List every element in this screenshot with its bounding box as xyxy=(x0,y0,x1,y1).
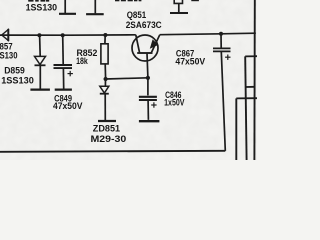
node junction dot D859 tap xyxy=(37,33,41,37)
wire ZD851 top lead xyxy=(104,79,106,86)
resistor R852 body xyxy=(101,44,108,64)
wire C846 top lead xyxy=(147,78,149,96)
polarity plus C846 xyxy=(151,102,156,107)
capacitor C849 plate bottom xyxy=(54,67,73,69)
svg-text:47x50V: 47x50V xyxy=(175,56,205,67)
capacitor C867 plate bottom xyxy=(213,50,231,52)
svg-text:1SS130: 1SS130 xyxy=(26,2,57,13)
node junction dot base node right xyxy=(146,76,150,80)
wire R852 bottom lead xyxy=(104,64,106,79)
transistor Q851 circle xyxy=(132,35,158,61)
wire bus stub H0 xyxy=(245,55,257,57)
node junction dot R852 tap xyxy=(103,33,107,37)
ground bar D859 xyxy=(30,88,50,90)
svg-text:S130: S130 xyxy=(0,50,18,61)
transistor Q851 base bar xyxy=(137,52,152,54)
capacitor C846 plate bottom xyxy=(139,99,157,101)
capacitor C849 plate top xyxy=(54,64,73,66)
node junction dot base node left xyxy=(104,77,108,81)
node junction dot C849 tap xyxy=(61,33,65,37)
zener ZD851 triangle xyxy=(100,86,109,93)
wire R852 top lead xyxy=(104,35,106,44)
wire Q851 base lead xyxy=(146,53,149,78)
wire ZD851 bottom lead xyxy=(104,95,106,121)
svg-text:47x50V: 47x50V xyxy=(53,101,83,112)
wire C846 bottom lead xyxy=(147,101,149,120)
diode D859 triangle xyxy=(35,56,46,64)
ground symbol top 2 xyxy=(86,0,104,14)
vertical bus right V1 xyxy=(253,0,255,160)
svg-text:M29-30: M29-30 xyxy=(91,134,127,145)
wire Q851 collector diagonal xyxy=(136,35,140,53)
diode D857 cathode bar xyxy=(7,29,9,41)
wire C849 bottom lead xyxy=(62,69,64,89)
wire C867 bottom lead xyxy=(221,52,225,151)
vertical bus V2 xyxy=(245,56,246,160)
wire base node horizontal xyxy=(106,78,148,79)
svg-text:1x50V: 1x50V xyxy=(164,98,185,109)
cut-off text above 1SS130 xyxy=(28,0,49,2)
wire bus stub H1 xyxy=(246,86,255,88)
wire Q851 emitter diagonal xyxy=(152,35,160,53)
ground bar C849 xyxy=(55,88,72,90)
capacitor C867 plate top xyxy=(213,47,231,49)
wire C849 top lead xyxy=(62,35,65,64)
diode D859 cathode bar xyxy=(35,64,46,66)
wire bus corner H2 xyxy=(236,97,257,99)
wire C867 top lead xyxy=(220,34,222,48)
node junction dot C867 tap xyxy=(219,32,223,36)
wire D859 anode lead xyxy=(39,35,42,56)
wire rail right segment xyxy=(160,33,256,35)
transistor Q851 emitter arrow xyxy=(150,39,159,48)
vertical bus V3 xyxy=(235,98,237,160)
cut-off mark top right xyxy=(191,0,199,1)
ground symbol top 1 xyxy=(59,0,76,14)
wire D859 cathode lead xyxy=(39,66,41,89)
polarity plus C849 xyxy=(68,71,73,76)
wire bottom return xyxy=(0,151,225,152)
cut-off text top middle xyxy=(115,0,141,1)
svg-text:2SA673C: 2SA673C xyxy=(126,20,162,31)
ground bar ZD851 xyxy=(98,120,116,122)
capacitor C846 plate top xyxy=(139,96,157,98)
wire rail left segment xyxy=(0,34,136,36)
diode D857 triangle xyxy=(2,30,9,41)
svg-text:18k: 18k xyxy=(76,56,88,67)
resistor stub top right xyxy=(170,0,188,13)
zener ZD851 cathode bar xyxy=(100,93,109,95)
svg-text:1SS130: 1SS130 xyxy=(1,75,34,86)
polarity plus C867 xyxy=(225,55,230,60)
ground bar C846 xyxy=(139,120,160,122)
